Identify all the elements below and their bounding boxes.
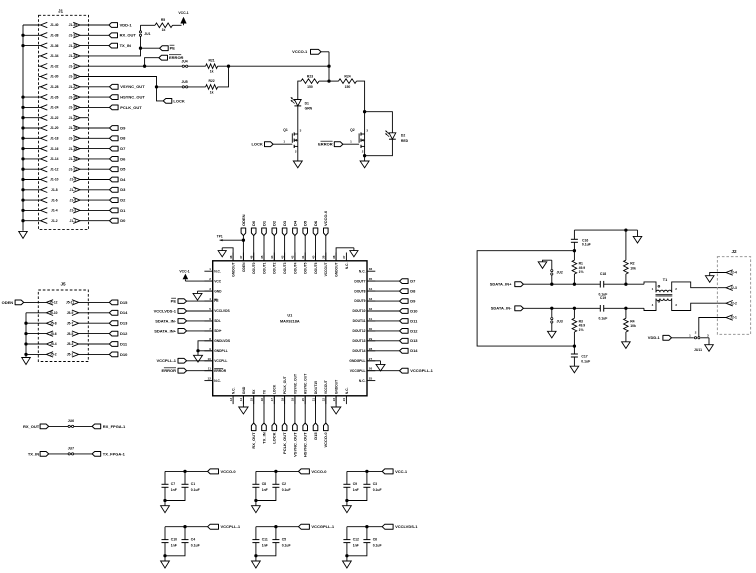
- svg-text:36: 36: [369, 267, 373, 271]
- svg-text:GND: GND: [242, 386, 246, 394]
- svg-text:ODEN: ODEN: [2, 300, 14, 305]
- svg-text:1k: 1k: [210, 90, 214, 94]
- svg-text:DOUT9: DOUT9: [354, 299, 365, 303]
- svg-text:N.C.: N.C.: [359, 269, 366, 273]
- svg-text:LOCK: LOCK: [273, 384, 277, 394]
- svg-text:0.1uF: 0.1uF: [581, 360, 590, 364]
- svg-text:D4: D4: [292, 220, 297, 226]
- svg-text:J1-19: J1-19: [69, 126, 78, 130]
- svg-text:46: 46: [250, 255, 254, 259]
- svg-text:N.C.: N.C.: [345, 262, 349, 269]
- svg-text:44: 44: [270, 255, 274, 259]
- svg-text:J5-1: J5-1: [67, 353, 74, 357]
- svg-text:R23: R23: [307, 74, 313, 78]
- svg-text:J1-23: J1-23: [69, 106, 78, 110]
- svg-text:J1-26: J1-26: [50, 95, 59, 99]
- svg-text:TX_IN: TX_IN: [120, 43, 131, 48]
- svg-text:1nF: 1nF: [262, 488, 268, 492]
- svg-text:J1-4: J1-4: [51, 209, 58, 213]
- svg-text:Q1: Q1: [283, 128, 288, 132]
- svg-text:JU7: JU7: [68, 447, 74, 451]
- svg-text:J5-9: J5-9: [67, 311, 74, 315]
- svg-text:D11: D11: [410, 318, 418, 323]
- svg-text:U1: U1: [287, 313, 292, 317]
- svg-text:D0: D0: [120, 218, 126, 223]
- svg-text:J2: J2: [731, 249, 737, 254]
- svg-text:GNDOUT: GNDOUT: [335, 263, 339, 277]
- svg-text:C6: C6: [373, 538, 377, 542]
- svg-text:PE: PE: [171, 298, 177, 303]
- svg-text:DOUT15: DOUT15: [314, 381, 318, 394]
- svg-text:VCCLVDS-1: VCCLVDS-1: [154, 308, 177, 313]
- svg-text:VCC-1: VCC-1: [179, 269, 189, 273]
- svg-text:PCLK_OUT: PCLK_OUT: [283, 376, 287, 394]
- svg-text:ERROR: ERROR: [214, 369, 227, 373]
- svg-text:J1-11: J1-11: [69, 167, 77, 171]
- svg-text:1k: 1k: [210, 70, 214, 74]
- svg-text:HSYNC_OUT: HSYNC_OUT: [304, 374, 308, 394]
- svg-text:VSYNC_OUT: VSYNC_OUT: [120, 84, 145, 89]
- svg-text:43: 43: [280, 255, 284, 259]
- svg-text:DOUT8: DOUT8: [354, 289, 365, 293]
- svg-text:JU6: JU6: [68, 419, 74, 423]
- svg-text:0.1uF: 0.1uF: [282, 544, 291, 548]
- svg-text:D14: D14: [410, 348, 418, 353]
- svg-text:38: 38: [332, 255, 336, 259]
- svg-text:J2-4: J2-4: [730, 271, 737, 275]
- svg-text:0.1uF: 0.1uF: [373, 544, 382, 548]
- svg-text:GRN: GRN: [305, 107, 313, 111]
- svg-text:J5-2: J5-2: [50, 353, 57, 357]
- svg-text:10k: 10k: [630, 266, 636, 270]
- svg-text:N.C.: N.C.: [214, 379, 221, 383]
- svg-text:D15: D15: [120, 300, 128, 305]
- svg-text:N.C.: N.C.: [359, 379, 366, 383]
- svg-text:J1-31: J1-31: [69, 64, 78, 68]
- svg-text:VCCGPLL-1: VCCGPLL-1: [311, 524, 334, 529]
- svg-text:0.1uF: 0.1uF: [373, 488, 382, 492]
- svg-text:J5-8: J5-8: [50, 321, 57, 325]
- svg-text:LOCK: LOCK: [251, 142, 262, 147]
- svg-text:VDD-1: VDD-1: [120, 22, 133, 27]
- svg-text:N.C.: N.C.: [232, 387, 236, 394]
- svg-text:JU5: JU5: [181, 80, 187, 84]
- svg-text:J1-25: J1-25: [69, 95, 78, 99]
- svg-text:J5: J5: [60, 282, 66, 287]
- svg-text:DOUT4: DOUT4: [293, 262, 297, 273]
- svg-text:J1-10: J1-10: [50, 178, 59, 182]
- svg-text:D5: D5: [303, 220, 308, 226]
- svg-text:J5-7: J5-7: [67, 321, 74, 325]
- svg-text:LOCK: LOCK: [173, 98, 184, 103]
- svg-text:J1-39: J1-39: [69, 23, 78, 27]
- svg-text:JU2: JU2: [557, 270, 563, 274]
- svg-text:D13: D13: [410, 338, 418, 343]
- svg-text:C17: C17: [581, 354, 587, 358]
- svg-text:J1-17: J1-17: [69, 137, 78, 141]
- svg-text:J1-34: J1-34: [50, 54, 59, 58]
- svg-text:21: 21: [311, 398, 315, 402]
- svg-text:J1-24: J1-24: [50, 106, 59, 110]
- svg-text:VCC-1: VCC-1: [178, 11, 188, 15]
- svg-text:1nF: 1nF: [171, 544, 177, 548]
- svg-text:TP1: TP1: [217, 234, 223, 238]
- svg-text:29: 29: [369, 337, 373, 341]
- svg-text:J1-18: J1-18: [50, 137, 59, 141]
- svg-text:10k: 10k: [630, 324, 636, 328]
- svg-text:42: 42: [291, 255, 295, 259]
- svg-text:LOCK: LOCK: [272, 432, 277, 443]
- svg-text:GNDPLL: GNDPLL: [214, 349, 228, 353]
- svg-text:33: 33: [369, 297, 373, 301]
- svg-text:SDATA_IN+: SDATA_IN+: [490, 282, 512, 287]
- svg-text:PE: PE: [170, 46, 176, 51]
- svg-text:J1-35: J1-35: [69, 44, 78, 48]
- svg-text:17: 17: [270, 398, 274, 402]
- svg-text:JU3: JU3: [557, 320, 563, 324]
- svg-text:D14: D14: [120, 310, 128, 315]
- svg-text:J1-12: J1-12: [50, 167, 59, 171]
- svg-text:VCC: VCC: [214, 279, 222, 283]
- svg-text:D1: D1: [120, 208, 126, 213]
- svg-text:VCCO-0: VCCO-0: [323, 210, 328, 226]
- svg-text:DOUT5: DOUT5: [304, 262, 308, 273]
- svg-text:DOUT11: DOUT11: [353, 319, 366, 323]
- svg-text:ODEN: ODEN: [241, 214, 246, 226]
- svg-text:D9: D9: [410, 298, 416, 303]
- svg-text:1nF: 1nF: [353, 544, 359, 548]
- svg-text:J1-28: J1-28: [50, 85, 59, 89]
- svg-text:D8: D8: [120, 136, 126, 141]
- svg-text:VCC-1: VCC-1: [395, 469, 408, 474]
- svg-text:J1-32: J1-32: [50, 64, 59, 68]
- svg-text:J1-20: J1-20: [50, 126, 59, 130]
- svg-text:47: 47: [239, 255, 243, 259]
- svg-text:1%: 1%: [579, 270, 584, 274]
- svg-text:27: 27: [369, 357, 373, 361]
- svg-text:150: 150: [345, 85, 351, 89]
- svg-text:25: 25: [369, 377, 373, 381]
- svg-text:J5-11: J5-11: [66, 301, 74, 305]
- svg-text:J1-27: J1-27: [69, 85, 78, 89]
- svg-text:0.1uF: 0.1uF: [282, 488, 291, 492]
- svg-text:0.1uF: 0.1uF: [598, 316, 607, 320]
- svg-text:VCCOUT: VCCOUT: [324, 263, 328, 277]
- svg-text:VSYNC_OUT: VSYNC_OUT: [292, 432, 297, 457]
- svg-text:VCCPLL-1: VCCPLL-1: [221, 524, 241, 529]
- svg-text:D2: D2: [120, 198, 126, 203]
- svg-text:J1-38: J1-38: [50, 34, 59, 38]
- svg-text:D7: D7: [410, 279, 416, 284]
- svg-text:D6: D6: [313, 220, 318, 226]
- svg-text:18: 18: [280, 398, 284, 402]
- svg-text:GNDOUT: GNDOUT: [335, 380, 339, 394]
- svg-text:12: 12: [208, 377, 212, 381]
- svg-text:16: 16: [260, 398, 264, 402]
- svg-text:ERROR: ERROR: [162, 368, 177, 373]
- svg-text:11: 11: [208, 367, 212, 371]
- svg-text:J5-3: J5-3: [67, 342, 74, 346]
- svg-text:D8: D8: [410, 289, 416, 294]
- svg-text:D13: D13: [120, 321, 128, 326]
- svg-text:DOUT0: DOUT0: [252, 262, 256, 273]
- svg-text:13: 13: [229, 398, 233, 402]
- svg-text:D2: D2: [272, 220, 277, 226]
- svg-text:32: 32: [369, 307, 373, 311]
- svg-text:HSYNC_OUT: HSYNC_OUT: [303, 432, 308, 457]
- svg-text:J1-30: J1-30: [50, 75, 59, 79]
- svg-text:RX_OUT: RX_OUT: [23, 424, 40, 429]
- svg-text:C10: C10: [171, 538, 177, 542]
- svg-text:10: 10: [208, 357, 212, 361]
- svg-text:J1: J1: [58, 9, 64, 14]
- svg-text:J5-4: J5-4: [50, 342, 57, 346]
- svg-text:R4: R4: [630, 320, 634, 324]
- svg-text:ODEN: ODEN: [242, 262, 246, 272]
- svg-text:DOUT13: DOUT13: [352, 339, 365, 343]
- svg-text:VCCLVDS-1: VCCLVDS-1: [395, 524, 418, 529]
- svg-text:J2-3: J2-3: [730, 286, 737, 290]
- svg-text:D0: D0: [251, 220, 256, 226]
- svg-text:C7: C7: [171, 482, 175, 486]
- svg-text:J5-5: J5-5: [67, 332, 74, 336]
- svg-text:D1: D1: [261, 220, 266, 226]
- svg-text:DOUT14: DOUT14: [352, 349, 365, 353]
- svg-text:VCCLVDS: VCCLVDS: [214, 309, 230, 313]
- svg-text:48: 48: [229, 255, 233, 259]
- svg-text:20: 20: [301, 398, 305, 402]
- svg-text:31: 31: [369, 317, 373, 321]
- svg-text:15: 15: [250, 398, 254, 402]
- svg-text:C9: C9: [353, 482, 357, 486]
- svg-text:D1: D1: [305, 101, 309, 105]
- svg-text:VCCPLL-1: VCCPLL-1: [156, 358, 176, 363]
- svg-text:D10: D10: [410, 308, 418, 313]
- svg-text:PCLK_OUT: PCLK_OUT: [282, 432, 287, 454]
- svg-text:JU4: JU4: [181, 59, 187, 63]
- svg-text:DOUT6: DOUT6: [314, 262, 318, 273]
- svg-text:D12: D12: [410, 328, 418, 333]
- svg-text:R21: R21: [208, 59, 214, 63]
- svg-text:J1-6: J1-6: [51, 198, 58, 202]
- svg-text:J1-21: J1-21: [69, 116, 78, 120]
- svg-text:SDATA_IN+: SDATA_IN+: [154, 328, 176, 333]
- svg-text:VCCOUT: VCCOUT: [324, 380, 328, 394]
- svg-text:DOUT12: DOUT12: [352, 329, 365, 333]
- svg-text:GNDGPLL: GNDGPLL: [349, 359, 365, 363]
- svg-text:J1-13: J1-13: [69, 157, 78, 161]
- svg-text:D2: D2: [401, 134, 405, 138]
- svg-text:J1-3: J1-3: [69, 209, 76, 213]
- svg-text:VCCGPLL-1: VCCGPLL-1: [410, 368, 433, 373]
- svg-text:Q2: Q2: [350, 128, 355, 132]
- svg-text:VCCO-0: VCCO-0: [221, 469, 237, 474]
- svg-text:DOUT3: DOUT3: [283, 262, 287, 273]
- svg-text:D10: D10: [120, 352, 128, 357]
- svg-text:JU1: JU1: [144, 32, 150, 36]
- svg-text:1k: 1k: [162, 28, 166, 32]
- svg-text:35: 35: [369, 277, 373, 281]
- svg-text:R24: R24: [344, 74, 350, 78]
- svg-text:TX_IN: TX_IN: [28, 451, 39, 456]
- svg-text:RX_OUT: RX_OUT: [251, 432, 256, 449]
- svg-text:RX_OUT: RX_OUT: [120, 33, 137, 38]
- svg-text:J1-33: J1-33: [69, 54, 78, 58]
- svg-text:26: 26: [369, 367, 373, 371]
- svg-text:34: 34: [369, 287, 373, 291]
- svg-text:J1-1: J1-1: [69, 219, 76, 223]
- svg-text:DOUT2: DOUT2: [273, 262, 277, 273]
- svg-text:D5: D5: [120, 167, 126, 172]
- svg-text:RX_FPGA-1: RX_FPGA-1: [103, 424, 126, 429]
- svg-text:VCCO-1: VCCO-1: [292, 49, 308, 54]
- svg-text:VSYNC_OUT: VSYNC_OUT: [293, 374, 297, 394]
- svg-text:0.1uF: 0.1uF: [191, 544, 200, 548]
- svg-text:J1-22: J1-22: [50, 116, 59, 120]
- svg-text:VCCO-0: VCCO-0: [311, 469, 327, 474]
- svg-text:R22: R22: [208, 79, 214, 83]
- svg-text:VDD-1: VDD-1: [648, 335, 661, 340]
- svg-text:C3: C3: [373, 482, 377, 486]
- svg-text:J2-2: J2-2: [730, 301, 737, 305]
- svg-text:C8: C8: [262, 482, 266, 486]
- svg-text:RX: RX: [252, 389, 256, 394]
- svg-text:C18: C18: [600, 272, 606, 276]
- svg-text:SDATA_IN-: SDATA_IN-: [491, 306, 512, 311]
- svg-text:1nF: 1nF: [262, 544, 268, 548]
- svg-text:J1-37: J1-37: [69, 34, 78, 38]
- svg-text:TX_FPGA-1: TX_FPGA-1: [103, 451, 126, 456]
- svg-text:J2-1: J2-1: [730, 316, 737, 320]
- svg-text:J1-29: J1-29: [69, 75, 78, 79]
- svg-text:JU11: JU11: [694, 348, 702, 352]
- svg-text:1nF: 1nF: [171, 488, 177, 492]
- svg-text:D7: D7: [120, 146, 126, 151]
- svg-text:C19: C19: [600, 296, 606, 300]
- svg-text:N.C.: N.C.: [345, 387, 349, 394]
- svg-text:DOUT7: DOUT7: [354, 279, 365, 283]
- svg-text:SDATA_IN-: SDATA_IN-: [155, 318, 176, 323]
- svg-text:14: 14: [239, 398, 243, 402]
- svg-text:J5-12: J5-12: [49, 301, 58, 305]
- svg-text:GND: GND: [214, 289, 222, 293]
- svg-text:D11: D11: [120, 341, 128, 346]
- svg-text:D4: D4: [120, 177, 126, 182]
- svg-text:R2: R2: [630, 262, 634, 266]
- svg-text:J1-15: J1-15: [69, 147, 78, 151]
- svg-text:VCCO-0: VCCO-0: [323, 432, 328, 448]
- svg-text:T1: T1: [663, 278, 667, 282]
- svg-text:C1: C1: [191, 482, 195, 486]
- svg-text:D12: D12: [120, 331, 128, 336]
- svg-text:MAX9218A: MAX9218A: [280, 320, 300, 324]
- svg-text:SDI+: SDI+: [214, 329, 221, 333]
- svg-text:30: 30: [369, 327, 373, 331]
- svg-text:D3: D3: [282, 220, 287, 226]
- svg-text:VCCPLL: VCCPLL: [214, 359, 227, 363]
- svg-text:1nF: 1nF: [353, 488, 359, 492]
- svg-text:J1-9: J1-9: [69, 178, 76, 182]
- svg-text:40: 40: [311, 255, 315, 259]
- svg-text:PCLK_OUT: PCLK_OUT: [120, 105, 142, 110]
- svg-text:0.1uF: 0.1uF: [191, 488, 200, 492]
- svg-text:J1-2: J1-2: [51, 219, 58, 223]
- svg-text:19: 19: [291, 398, 295, 402]
- svg-text:HSYNC_OUT: HSYNC_OUT: [120, 95, 145, 100]
- svg-text:TX_IN: TX_IN: [261, 432, 266, 443]
- svg-text:J1-7: J1-7: [69, 188, 76, 192]
- svg-text:D3: D3: [120, 187, 126, 192]
- svg-text:J1-8: J1-8: [51, 188, 58, 192]
- svg-text:C11: C11: [262, 538, 268, 542]
- svg-text:DOUT10: DOUT10: [352, 309, 365, 313]
- svg-text:1%: 1%: [579, 328, 584, 332]
- svg-text:ERROR: ERROR: [318, 142, 333, 147]
- svg-text:J1-36: J1-36: [50, 44, 59, 48]
- svg-text:VCCGPLL: VCCGPLL: [350, 369, 366, 373]
- svg-text:D6: D6: [120, 156, 126, 161]
- svg-text:DOUT1: DOUT1: [262, 262, 266, 273]
- svg-text:J1-5: J1-5: [69, 198, 76, 202]
- svg-text:D9: D9: [120, 125, 126, 130]
- svg-text:C12: C12: [353, 538, 359, 542]
- svg-text:C5: C5: [282, 538, 286, 542]
- svg-text:45: 45: [260, 255, 264, 259]
- svg-text:J1-16: J1-16: [50, 147, 59, 151]
- svg-text:J5-6: J5-6: [50, 332, 57, 336]
- svg-text:J1-14: J1-14: [50, 157, 59, 161]
- svg-text:24: 24: [342, 398, 346, 402]
- svg-text:R5: R5: [161, 18, 165, 22]
- svg-text:J1-40: J1-40: [50, 23, 59, 27]
- svg-text:150: 150: [307, 85, 313, 89]
- svg-text:N.C.: N.C.: [214, 269, 221, 273]
- svg-text:C4: C4: [191, 538, 195, 542]
- svg-text:GNDOUT: GNDOUT: [232, 263, 236, 277]
- svg-text:0.1uF: 0.1uF: [582, 243, 591, 247]
- svg-text:GNDLVDS: GNDLVDS: [214, 339, 231, 343]
- svg-text:SDI-: SDI-: [214, 319, 221, 323]
- svg-text:41: 41: [301, 255, 305, 259]
- svg-text:RED: RED: [401, 139, 409, 143]
- svg-text:39: 39: [322, 255, 326, 259]
- svg-text:C2: C2: [282, 482, 286, 486]
- svg-text:37: 37: [342, 255, 346, 259]
- svg-text:22: 22: [322, 398, 326, 402]
- svg-text:23: 23: [332, 398, 336, 402]
- svg-text:J5-10: J5-10: [49, 311, 58, 315]
- svg-text:D15: D15: [313, 432, 318, 440]
- svg-text:28: 28: [369, 347, 373, 351]
